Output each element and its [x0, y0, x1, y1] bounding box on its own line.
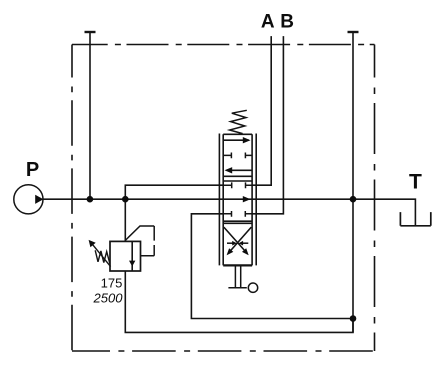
valve V1 lever knob circle — [248, 283, 257, 292]
tank symbol T — [400, 212, 430, 226]
wire relief inlet — [124, 199, 126, 241]
valve V1 box2 bottom edge — [223, 220, 252, 222]
valve V1 box1 arrowhead right — [243, 137, 251, 143]
valve V1 box3 top edge — [223, 222, 252, 224]
enclosure border right — [374, 45, 376, 352]
wire A-line left branch — [125, 185, 223, 199]
valve V1 box3 inner arrow left shaft — [227, 242, 233, 244]
valve V1 box3 inner arrowhead left — [232, 241, 237, 246]
port tick mark left riser — [85, 31, 96, 33]
valve V1 box3 inner arrow right shaft — [243, 242, 249, 244]
svg-text:2500: 2500 — [93, 290, 124, 305]
valve V1 box3 inner arrowhead right — [239, 241, 244, 246]
wire P supply line to tank drop — [43, 199, 415, 226]
relief valve RV1 adjust arrow shaft — [92, 244, 110, 266]
junction dot T riser — [350, 196, 357, 203]
valve V1 box2 stubs lower — [223, 211, 252, 217]
valve V1 box3 bottom edge — [223, 264, 252, 266]
pump port P arrowhead — [35, 195, 43, 204]
valve V1 box1 flow line lower — [227, 169, 253, 171]
valve V1 stem lines — [235, 265, 240, 287]
wire A-line right branch to port A — [252, 36, 271, 185]
wire B-line right branch to port B — [252, 36, 283, 214]
relief valve RV1 adjust arrowhead — [89, 240, 96, 247]
wire B/T-line left branch down — [191, 214, 353, 319]
valve V1 return spring top — [230, 110, 247, 133]
valve V1 box3 diagonal B — [231, 227, 252, 250]
valve V1 box1 arrowhead left — [225, 167, 233, 173]
port tick mark right riser — [348, 31, 359, 33]
valve V1 box1 flow line upper — [223, 139, 249, 141]
svg-text:B: B — [280, 11, 294, 32]
valve V1 body side edges — [223, 134, 252, 265]
svg-text:A: A — [261, 11, 275, 32]
svg-text:P: P — [26, 159, 39, 181]
junction dot relief tee — [122, 196, 129, 203]
valve V1 box3 arrowhead diag B — [227, 248, 234, 255]
wire riser right (tick to drain rail) — [352, 32, 354, 332]
valve V1 proportional rail right — [255, 134, 257, 266]
relief valve RV1 pilot line — [125, 226, 154, 256]
enclosure border bottom — [72, 350, 375, 352]
svg-text:175: 175 — [101, 275, 123, 290]
relief valve RV1 body — [110, 241, 141, 271]
pump port P circle — [14, 185, 43, 214]
valve V1 box3 diagonal A — [224, 227, 245, 250]
valve V1 box1 stubs closed ports — [223, 153, 252, 159]
svg-text:T: T — [409, 171, 422, 194]
relief valve RV1 spring — [95, 250, 110, 263]
valve V1 box2 top edge — [223, 180, 252, 182]
valve V1 box1 top edge — [223, 133, 252, 135]
enclosure border top — [72, 44, 375, 46]
relief valve RV1 internal arrowhead down — [129, 261, 135, 267]
valve V1 lever line — [228, 287, 246, 289]
valve V1 box2 arrowhead P flow — [243, 196, 251, 202]
relief valve RV1 internal flow line — [131, 241, 133, 271]
valve V1 box3 arrowhead diag A — [242, 248, 249, 255]
wire relief drain line — [125, 271, 353, 332]
enclosure border left — [71, 45, 73, 352]
junction dot P riser — [87, 196, 94, 203]
valve V1 box2 stubs upper — [223, 182, 252, 188]
valve V1 box1 bottom edge — [223, 175, 252, 177]
junction dot drain corner — [350, 315, 357, 322]
valve V1 proportional rail left — [218, 134, 220, 266]
wire riser from left tick to P line — [89, 32, 91, 198]
